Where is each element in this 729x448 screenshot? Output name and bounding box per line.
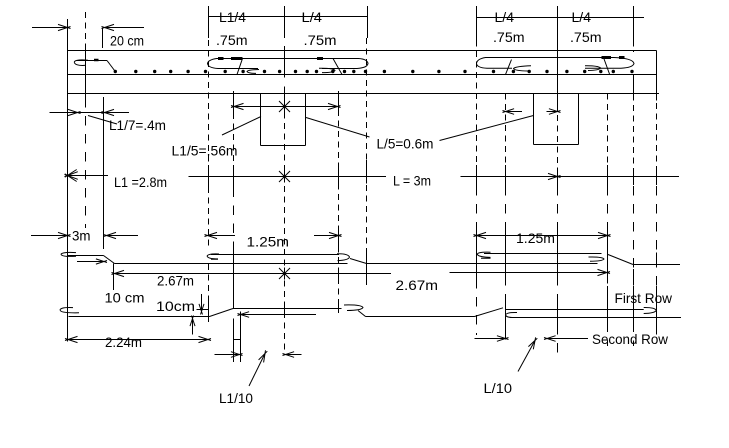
svg-text:L1/5=.56m: L1/5=.56m (172, 143, 238, 159)
svg-text:1.25m: 1.25m (516, 230, 555, 246)
svg-text:L1/4: L1/4 (219, 9, 246, 25)
svg-text:.75m: .75m (304, 32, 337, 48)
svg-text:L/4: L/4 (302, 9, 323, 25)
svg-text:.75m: .75m (570, 29, 602, 45)
svg-text:First Row: First Row (615, 290, 673, 306)
svg-text:L1 =2.8m: L1 =2.8m (114, 174, 167, 190)
svg-text:L1/10: L1/10 (219, 390, 253, 406)
svg-text:L/4: L/4 (495, 9, 515, 25)
svg-text:L/5=0.6m: L/5=0.6m (377, 136, 434, 152)
svg-text:10 cm: 10 cm (105, 290, 145, 306)
svg-text:2.24m: 2.24m (105, 334, 142, 350)
svg-text:2.67m: 2.67m (396, 277, 439, 293)
svg-text:3m: 3m (72, 228, 91, 244)
svg-text:L/4: L/4 (572, 9, 592, 25)
svg-text:L = 3m: L = 3m (393, 173, 431, 189)
svg-text:1.25m: 1.25m (247, 234, 290, 250)
svg-text:20 cm: 20 cm (110, 33, 144, 49)
svg-text:L1/7=.4m: L1/7=.4m (109, 117, 166, 133)
svg-text:.75m: .75m (216, 32, 248, 48)
svg-text:2.67m: 2.67m (157, 273, 194, 289)
svg-text:L/10: L/10 (484, 380, 513, 396)
svg-text:Second Row: Second Row (592, 331, 669, 347)
svg-text:10cm: 10cm (156, 298, 195, 314)
svg-text:.75m: .75m (493, 29, 525, 45)
